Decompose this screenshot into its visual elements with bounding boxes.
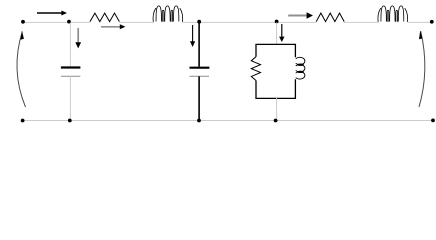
wire: top rail, node C to resistor R2 <box>277 21 317 23</box>
wire: top rail, L1 to node B <box>183 21 200 23</box>
capacitor C1 top plate <box>61 66 81 68</box>
inductor L2 (series, top rail) <box>378 6 408 22</box>
junction dot on bottom rail below C2 <box>197 119 201 123</box>
left terminal dot (bottom) <box>21 119 25 123</box>
current arrow into tank (down) <box>281 24 283 37</box>
right terminal dot (bottom) <box>431 119 435 123</box>
current arrow into C2 (down) <box>192 25 194 42</box>
wire: C2 down to bottom rail <box>198 76 200 120</box>
wire: top rail, input dot to node A <box>23 21 69 23</box>
wire: node C down to tank box <box>276 22 278 44</box>
wire: top rail, node A to resistor R1 <box>69 21 90 23</box>
tank circuit box outline <box>256 44 295 98</box>
wire: bottom return rail <box>23 120 433 122</box>
current arrow after node C (pointing right) <box>288 15 307 17</box>
wire: tank box down to bottom rail <box>276 98 278 121</box>
wire: node B down to capacitor C2 <box>198 22 200 67</box>
inductor L1 (series, top rail) <box>153 6 183 22</box>
curved arrow: left field arc <box>17 32 26 108</box>
wire: top rail, R2 to inductor L2 <box>344 21 378 23</box>
node A junction dot <box>67 20 71 24</box>
resistor R3 (vertical, in tank left edge) <box>251 57 260 81</box>
left terminal dot (top) <box>21 20 25 24</box>
wire: top rail, node B to node C <box>199 21 276 23</box>
right terminal dot (top) <box>430 20 434 24</box>
node C junction dot <box>275 20 279 24</box>
resistor R1 (series, top rail) <box>90 13 119 22</box>
capacitor C2 bottom plate <box>190 75 210 77</box>
wire: top rail, R1 to inductor L1 <box>119 21 153 23</box>
current arrow under R1 (pointing right) <box>101 26 121 28</box>
capacitor C1 bottom plate <box>61 75 81 77</box>
current arrow into C1 (down) <box>77 28 79 43</box>
node B junction dot <box>197 20 201 24</box>
wire: node A down to capacitor C1 <box>69 22 71 66</box>
current arrow I1 (top left, pointing right) <box>37 12 62 14</box>
inductor L3 (vertical, in tank right edge) <box>296 57 305 79</box>
wire: top rail, L2 to output dot <box>407 21 431 23</box>
junction dot on bottom rail below tank <box>274 119 278 123</box>
resistor R2 (series, top rail) <box>316 13 344 22</box>
junction dot on bottom rail below C1 <box>68 119 72 123</box>
wire: C1 down to bottom rail <box>69 76 71 120</box>
capacitor C2 top plate <box>190 67 210 69</box>
curved arrow: right field arc <box>419 31 425 107</box>
